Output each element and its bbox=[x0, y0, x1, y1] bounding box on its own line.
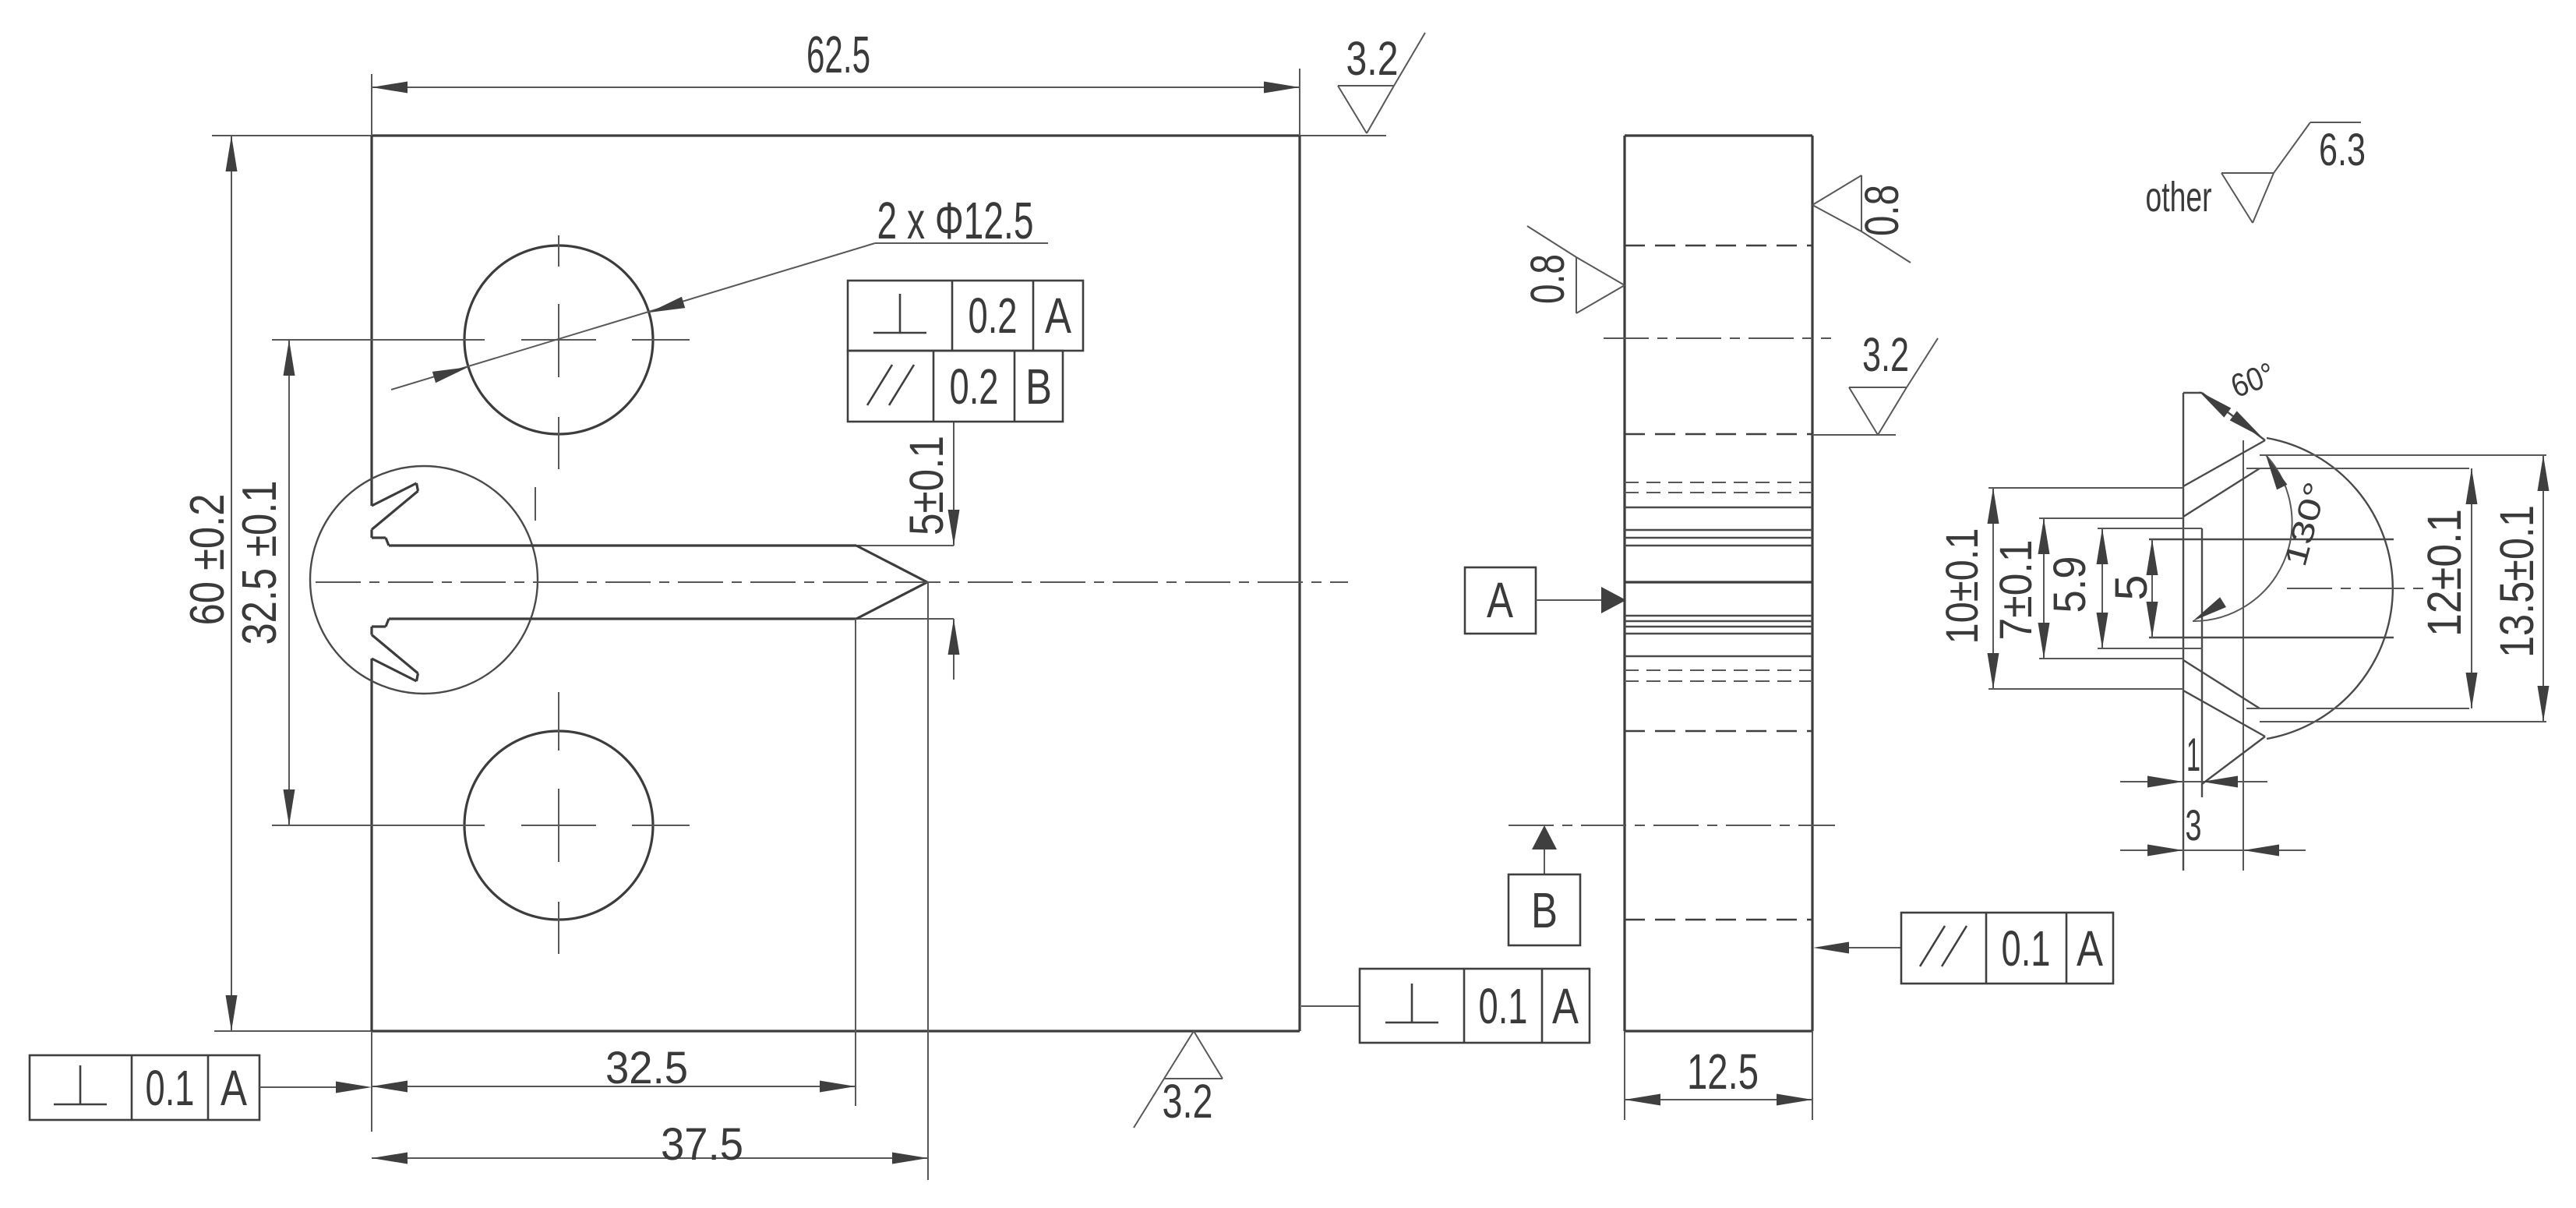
dim 5 +-0.1 slot bbox=[900, 422, 960, 680]
detail dim 7 +-0.1 bbox=[1991, 518, 2183, 659]
dim 32.5 +-0.1 hole pitch bbox=[233, 340, 295, 825]
V notch chevron bbox=[856, 546, 927, 582]
slot top edge bbox=[389, 544, 856, 546]
detail knife top bbox=[2183, 393, 2265, 517]
svg-text:5: 5 bbox=[2106, 575, 2157, 601]
upper knife edge bbox=[372, 483, 418, 546]
svg-text:6.3: 6.3 bbox=[2319, 125, 2366, 175]
svg-text:62.5: 62.5 bbox=[806, 26, 870, 84]
plate left edge upper bbox=[370, 136, 372, 506]
svg-text:A: A bbox=[1487, 572, 1513, 628]
surface finish 3.2 top-right bbox=[1338, 32, 1425, 133]
svg-text:A: A bbox=[2077, 920, 2103, 977]
FCF perpendicularity 0.1 A mid bbox=[1301, 969, 1590, 1043]
detail centerline bbox=[2287, 588, 2427, 589]
datum B flag bbox=[1509, 825, 1580, 945]
detail dim 5 bbox=[2106, 539, 2158, 638]
small vertical dash near recess edge bbox=[535, 487, 536, 521]
svg-text:37.5: 37.5 bbox=[661, 1119, 743, 1170]
svg-text:60 ±0.2: 60 ±0.2 bbox=[181, 494, 235, 626]
detail angle 60 bbox=[2199, 355, 2279, 437]
FCF perpendicularity 0.1 A bottom-left bbox=[30, 1055, 372, 1120]
surface finish other 6.3 bbox=[2146, 122, 2366, 223]
svg-text:A: A bbox=[221, 1060, 247, 1116]
svg-text:32.5: 32.5 bbox=[605, 1043, 688, 1093]
plate left edge lower bbox=[370, 659, 372, 1031]
svg-text:B: B bbox=[1025, 359, 1052, 415]
svg-text:0.2: 0.2 bbox=[969, 288, 1018, 344]
dim 62.5 top bbox=[372, 26, 1300, 136]
detail top tick bbox=[2183, 392, 2202, 394]
svg-text:10±0.1: 10±0.1 bbox=[1937, 528, 1988, 645]
svg-text:0.2: 0.2 bbox=[950, 359, 999, 415]
svg-text:12±0.1: 12±0.1 bbox=[2418, 509, 2471, 637]
svg-text:7±0.1: 7±0.1 bbox=[1991, 540, 2041, 641]
svg-text:B: B bbox=[1531, 882, 1558, 938]
hole 2 bbox=[272, 692, 690, 954]
dim 32.5 bottom bbox=[372, 619, 856, 1132]
dim 12.5 side bbox=[1625, 1031, 1812, 1120]
side hidden hole 2 lines bbox=[1625, 730, 1812, 733]
svg-text:2 x Φ12.5: 2 x Φ12.5 bbox=[877, 192, 1034, 250]
svg-text:3.2: 3.2 bbox=[1163, 1075, 1213, 1128]
detail step line bbox=[2201, 528, 2203, 797]
FCF parallelism 0.1 A right bbox=[1813, 913, 2113, 984]
side notch solid lines bbox=[1625, 507, 1812, 656]
svg-text:0.1: 0.1 bbox=[2002, 920, 2051, 977]
svg-text:3: 3 bbox=[2186, 800, 2202, 849]
detail angle 130 bbox=[2193, 455, 2334, 621]
surface finish 3.2 side bbox=[1812, 328, 1938, 435]
datum A flag bbox=[1465, 567, 1626, 634]
detail face line bbox=[2183, 393, 2184, 871]
hole leader 2xPhi12.5 bbox=[391, 192, 1048, 390]
svg-text:13.5±0.1: 13.5±0.1 bbox=[2490, 505, 2543, 658]
plate top edge bbox=[372, 134, 1300, 136]
lower knife edge bbox=[372, 619, 418, 681]
surface finish 0.8 right bbox=[1812, 175, 1911, 263]
main centerline bbox=[316, 581, 1348, 583]
side view outline bbox=[1625, 136, 1812, 1031]
detail recess arc bbox=[2267, 438, 2393, 739]
detail tip face line bbox=[2243, 440, 2244, 871]
FCF parallelism 0.2 B bbox=[848, 351, 1063, 422]
svg-text:0.1: 0.1 bbox=[146, 1060, 195, 1116]
svg-text:5±0.1: 5±0.1 bbox=[900, 436, 953, 535]
recess circle bbox=[310, 466, 538, 694]
svg-text:0.1: 0.1 bbox=[1479, 978, 1528, 1034]
hole 1 bbox=[272, 235, 690, 469]
svg-text:1: 1 bbox=[2186, 729, 2200, 781]
detail knife bottom bbox=[2183, 660, 2265, 784]
detail slot edges bbox=[2149, 539, 2394, 540]
svg-text:A: A bbox=[1045, 288, 1071, 344]
dim 37.5 bottom bbox=[372, 582, 928, 1180]
plate bottom edge bbox=[372, 1030, 1300, 1032]
side hole1 centerline bbox=[1604, 337, 1831, 339]
surface finish 3.2 bottom inverted bbox=[1134, 1031, 1223, 1128]
side hole2 centerline datum B bbox=[1509, 825, 1835, 826]
svg-text:32.5 ±0.1: 32.5 ±0.1 bbox=[233, 481, 287, 645]
FCF perpendicularity 0.2 A bbox=[848, 281, 1083, 351]
surface finish 0.8 left bbox=[1521, 226, 1625, 313]
detail dim 13.5 +-0.1 bbox=[2260, 455, 2550, 722]
side notch hidden lines bbox=[1625, 482, 1812, 681]
dim 60 +-0.2 left bbox=[181, 136, 238, 1031]
detail dim 12 +-0.1 bbox=[2246, 468, 2478, 708]
detail dim 3 bbox=[2120, 800, 2306, 857]
svg-text:3.2: 3.2 bbox=[1346, 32, 1399, 85]
svg-text:5.9: 5.9 bbox=[2045, 556, 2095, 613]
svg-text:0.8: 0.8 bbox=[1521, 254, 1574, 304]
detail dim 5.9 bbox=[2045, 528, 2202, 648]
svg-text:other: other bbox=[2146, 174, 2212, 221]
svg-text:A: A bbox=[1552, 978, 1579, 1034]
side hidden hole 1 lines bbox=[1625, 245, 1812, 247]
detail dim 1 bbox=[2120, 729, 2267, 788]
svg-text:0.8: 0.8 bbox=[1855, 185, 1908, 236]
svg-text:3.2: 3.2 bbox=[1862, 328, 1909, 381]
detail dim 10 +-0.1 bbox=[1937, 488, 2183, 689]
plate right edge bbox=[1298, 136, 1300, 1031]
svg-text:12.5: 12.5 bbox=[1687, 1044, 1759, 1100]
slot bottom edge bbox=[389, 617, 856, 620]
